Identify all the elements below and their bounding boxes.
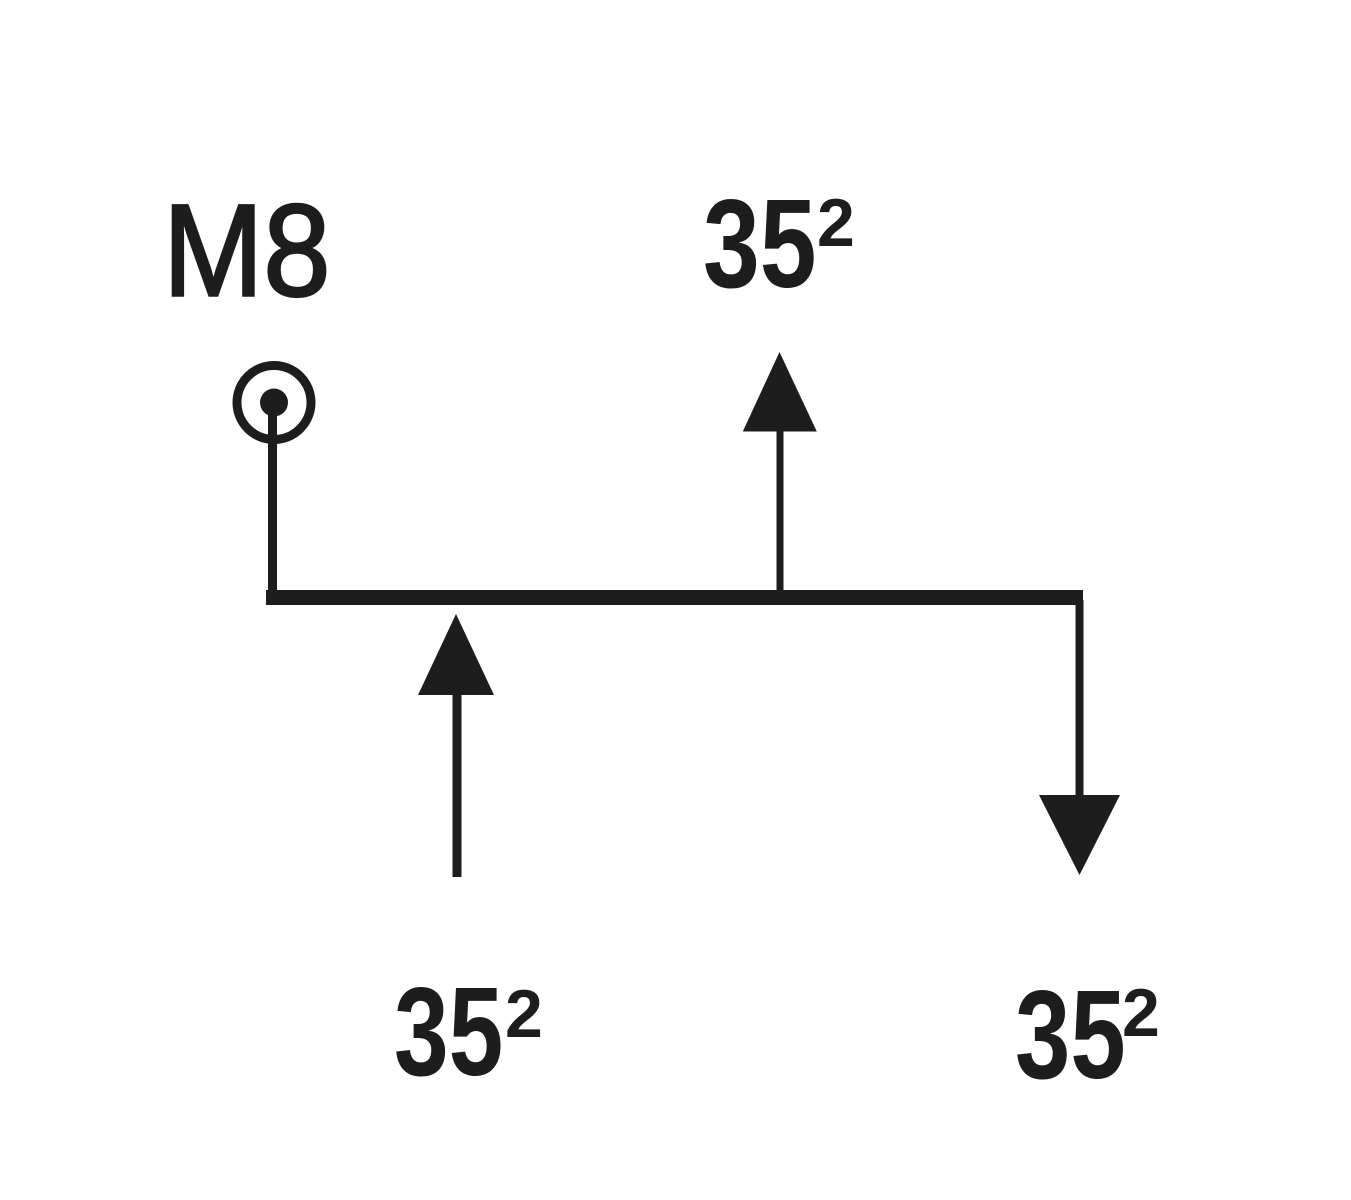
wire from terminal M8 down to busbar [268,403,277,595]
terminal center dot [260,389,288,417]
svg-text:2: 2 [1122,975,1160,1051]
terminal circle (connection point) [237,366,311,440]
label 35^2 bottom-right feeder [1015,965,1160,1106]
label 35^2 bottom-left feeder [394,961,543,1102]
svg-text:35: 35 [703,174,817,315]
up-arrow head (top middle feeder) [743,352,817,432]
svg-text:35: 35 [1015,965,1126,1106]
svg-text:M8: M8 [163,177,330,324]
wire up-arrow feeder (bottom-left), stem [453,695,462,877]
svg-text:35: 35 [394,961,503,1102]
wire down-feeder (right end), stem [1076,600,1084,800]
busbar [266,590,1083,605]
label 35^2 top feeder [703,174,855,315]
svg-text:2: 2 [505,976,543,1052]
down-arrow head (right feeder) [1039,795,1120,875]
wire up-arrow feeder (top middle), stem [777,430,784,590]
up-arrow head (bottom-left feeder) [418,614,494,695]
svg-text:2: 2 [817,185,855,261]
terminal M8 label [163,177,330,324]
